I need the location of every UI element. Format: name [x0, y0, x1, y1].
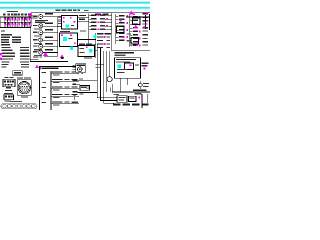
bus wire B1 [44, 17, 58, 58]
notes block N1 [1, 30, 21, 45]
wire tag row R1 [89, 14, 112, 16]
indicator lamp DS5 [33, 43, 58, 50]
panel label [115, 52, 135, 56]
relay K1 [58, 16, 77, 30]
revision triangle RT3 [60, 54, 65, 58]
wire tag T1 [70, 47, 73, 50]
terminal table TB1 wire tags [5, 17, 31, 26]
wire V1 [97, 45, 118, 99]
indicator lamp DS2 [33, 22, 58, 29]
connector face view P2 [4, 93, 14, 102]
bottom right notes [114, 94, 148, 108]
right rows RR3 [143, 12, 149, 42]
wire K1-out1 [78, 15, 89, 18]
terminal table TB1 title [7, 11, 18, 12]
indicator lamp DS6 [33, 49, 58, 56]
wire tag row R3 [89, 21, 112, 23]
bus wire B2 [89, 14, 97, 59]
indicator lamp DS4 [33, 37, 58, 44]
component box K7 [131, 38, 139, 45]
wire tag row S3 [97, 43, 110, 45]
wire drop WD1 [110, 84, 113, 92]
component box K4 [73, 84, 90, 91]
wire PS1-down [120, 78, 128, 92]
revision triangle RT2 [43, 52, 48, 56]
wire K3-out [95, 49, 98, 52]
wire row WT2 [43, 79, 80, 83]
revision triangle RT6 [133, 25, 138, 29]
rule bottom right [112, 89, 150, 94]
wire stub B1a [58, 18, 62, 22]
notes text D3 [33, 56, 64, 59]
wire row WT5 [42, 101, 80, 105]
wire row WT1 [42, 71, 80, 75]
meter M2 [73, 64, 86, 74]
indicator lamp DS3 [33, 29, 58, 36]
wire stub B2t [95, 14, 109, 15]
component box K5 [133, 18, 141, 25]
wire RW1 [126, 16, 150, 19]
frame right box border [111, 13, 150, 51]
wire V4 [105, 51, 108, 92]
border band top 2 [0, 6, 150, 9]
indicator lamp DS1 [33, 13, 58, 23]
wire tag row S2 [97, 40, 110, 41]
wire tag row S4 [97, 47, 110, 48]
wire row WT4 [43, 94, 80, 98]
wire table frame [39, 66, 80, 110]
frame top rule [30, 13, 150, 62]
notes right of meter [84, 57, 103, 67]
wire K1-out2 [78, 19, 89, 22]
relay K3 [78, 44, 95, 57]
terminal table TB1 header row [3, 14, 30, 16]
divider line D2 [30, 60, 68, 63]
ground G1 [72, 95, 78, 103]
wire list W-list [2, 47, 30, 68]
table label box [13, 71, 23, 75]
right panel extra text [127, 24, 149, 46]
connector face view P1 [3, 77, 15, 91]
diode CR2 [73, 91, 98, 94]
revision triangle RT4 [35, 65, 39, 68]
revision triangle RT5 [129, 11, 134, 15]
cluster C2 header [97, 33, 111, 34]
wire tag row R5 [89, 28, 112, 30]
right bus RB1 [116, 14, 119, 44]
bottom label row [113, 104, 149, 106]
wire tag row R2 [89, 18, 112, 20]
wire V3 [103, 51, 114, 104]
wire tag T3 [94, 35, 97, 38]
right rows RR2 [130, 14, 141, 47]
wire list marker M2 [0, 57, 2, 60]
terminal strip TS1 [1, 101, 37, 109]
splice SP1 [138, 81, 149, 89]
notes right of PS1 [142, 63, 149, 70]
right rows RR1 [119, 15, 128, 41]
right edge wires [145, 14, 150, 30]
wire tag row S1 [97, 36, 110, 38]
junction box JB1 [117, 96, 127, 102]
wire tag row R4 [89, 25, 112, 27]
relay K2 [60, 31, 78, 47]
border band top 1 [0, 1, 150, 4]
wire list marker M1 [0, 53, 2, 56]
diode CR1 [73, 78, 98, 81]
junction box JB2 [129, 96, 137, 101]
power supply PS1 [115, 58, 141, 78]
connector face view J1 [17, 78, 31, 98]
right panel extra tags [120, 13, 146, 45]
wire V2 [100, 48, 122, 101]
cable loop [107, 51, 112, 82]
wire tag T2 [138, 96, 140, 98]
wire K2-out [78, 31, 96, 40]
divider line D1 [30, 58, 38, 61]
terminal table TB1 grid [0, 17, 32, 28]
wire row WT3 [42, 86, 80, 90]
title text [56, 10, 89, 12]
revision triangle RT1 [28, 13, 37, 19]
component box K6 [117, 26, 125, 33]
